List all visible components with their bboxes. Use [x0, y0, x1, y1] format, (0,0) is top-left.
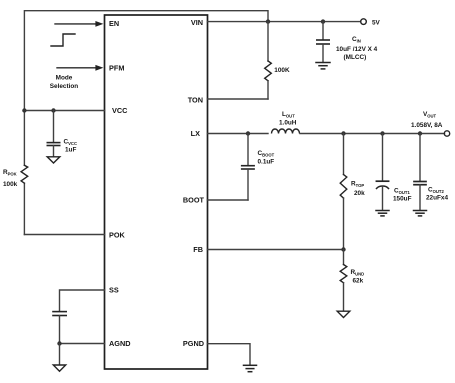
ground (open triangle, AGND): [53, 365, 65, 371]
capacitor C_OUT2: [414, 134, 426, 211]
wire AGND: [60, 343, 105, 345]
node Cout1 junction: [380, 131, 384, 135]
svg-text:100k: 100k: [3, 181, 18, 188]
wire: [55, 23, 96, 25]
IC U1 regulator: [105, 15, 208, 369]
capacitor C_IN: [317, 22, 329, 63]
svg-text:PFM: PFM: [109, 64, 124, 73]
ground (hatched, Cin): [316, 63, 330, 69]
svg-text:BOOT: BOOT: [183, 196, 205, 205]
svg-text:150uF: 150uF: [393, 196, 412, 203]
svg-text:1.058V, 8A: 1.058V, 8A: [411, 122, 443, 129]
svg-text:22uFx4: 22uFx4: [426, 195, 448, 202]
node Rtop junction: [341, 131, 345, 135]
inductor L_OUT: [272, 129, 300, 134]
resistor R_UND: [340, 250, 347, 311]
wire PFM arrowhead: [95, 65, 103, 71]
wire VCC: [24, 110, 104, 112]
svg-text:VCC: VCC: [112, 106, 128, 115]
resistor 100K: [265, 22, 272, 100]
wire LX: [208, 133, 269, 135]
node Cboot junction: [246, 131, 250, 135]
wire SS: [60, 290, 105, 311]
node VCC-rail junction: [22, 108, 26, 112]
wire FB: [208, 249, 344, 251]
ground (open triangle, Cvcc): [47, 157, 60, 163]
svg-text:Selection: Selection: [50, 83, 79, 90]
wire BOOT: [208, 199, 249, 201]
node Cvcc junction: [51, 108, 55, 112]
svg-text:62k: 62k: [353, 278, 364, 285]
svg-text:POK: POK: [109, 231, 126, 240]
svg-text:(MLCC): (MLCC): [344, 54, 367, 61]
capacitor C_OUT1 (polarized): [376, 134, 388, 211]
wire: [24, 11, 268, 166]
ground (open triangle, Rund): [337, 311, 350, 317]
svg-text:EN: EN: [109, 19, 119, 28]
capacitor C_BOOT: [242, 134, 254, 201]
svg-text:PGND: PGND: [183, 339, 204, 348]
wire VOUT: [300, 133, 445, 135]
ground (hatched, Cout2): [414, 211, 427, 216]
svg-text:VIN: VIN: [191, 18, 203, 27]
wire PGND: [208, 344, 251, 366]
capacitor C_SS: [53, 312, 66, 344]
terminal 5V: [361, 19, 367, 25]
svg-text:AGND: AGND: [109, 339, 131, 348]
svg-text:100K: 100K: [274, 67, 290, 74]
resistor R_POK: [21, 165, 28, 183]
svg-text:10uF /12V X 4: 10uF /12V X 4: [336, 46, 378, 53]
wire: [208, 21, 361, 23]
svg-text:5V: 5V: [372, 20, 381, 27]
wire EN arrowhead: [95, 21, 103, 27]
ground (hatched, Cout1): [376, 211, 389, 216]
node FB junction: [341, 247, 345, 251]
capacitor C_VCC: [47, 111, 59, 157]
wire: [59, 344, 61, 365]
terminal VOUT: [444, 131, 449, 136]
wire POK: [24, 234, 104, 236]
node B: [321, 19, 325, 23]
svg-text:TON: TON: [188, 96, 203, 105]
svg-text:SS: SS: [109, 286, 119, 295]
svg-text:0.1uF: 0.1uF: [258, 159, 275, 166]
node SS-AGND junction: [57, 341, 61, 345]
wire: [23, 183, 25, 234]
node A: [266, 19, 270, 23]
resistor R_TOP: [340, 134, 347, 250]
svg-text:1uF: 1uF: [65, 147, 76, 154]
svg-text:LX: LX: [191, 129, 200, 138]
svg-text:FB: FB: [193, 245, 203, 254]
node Cout2 junction: [418, 131, 422, 135]
svg-text:1.0uH: 1.0uH: [279, 120, 297, 127]
svg-text:Mode: Mode: [56, 75, 73, 82]
ground (hatched, PGND): [244, 365, 257, 371]
wire: [57, 67, 96, 69]
wire TON: [208, 98, 269, 100]
svg-text:20k: 20k: [354, 190, 365, 197]
step waveform symbol: [51, 34, 75, 46]
